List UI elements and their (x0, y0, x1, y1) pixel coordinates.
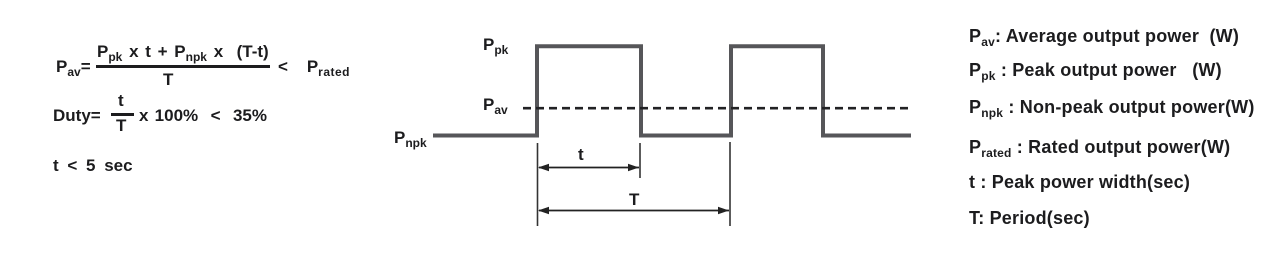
less-than Prated (278, 58, 350, 76)
formula Duty = t/T x 100% < 35% (53, 107, 101, 125)
fraction bar (96, 65, 270, 68)
formula Pav = (Ppk x t + Pnpk x (T-t)) / T < Prated (56, 58, 91, 76)
fraction bar small (111, 113, 134, 116)
legend line T (969, 209, 1090, 228)
extension line right (729, 142, 731, 226)
numerator Ppk x t + Pnpk x (T-t) (97, 43, 269, 61)
legend line Prated (969, 138, 1230, 157)
legend line Ppk (969, 61, 1222, 80)
extension line middle (639, 143, 641, 178)
square wave pulse train (433, 46, 911, 135)
numerator t (118, 92, 124, 110)
x 100% < 35% (139, 107, 267, 125)
denominator T (163, 71, 173, 89)
denominator T (116, 117, 126, 135)
T dimension arrow (539, 210, 729, 212)
svg-text:Pnpk: Pnpk (394, 128, 427, 150)
svg-text:Pav: Pav (483, 95, 508, 117)
dashed average line (523, 107, 908, 110)
svg-text:Ppk: Ppk (483, 35, 509, 57)
t dimension arrow (539, 167, 639, 169)
legend line t (969, 173, 1190, 192)
legend line Pav (969, 27, 1239, 46)
formula t < 5 sec (53, 157, 133, 175)
svg-text:t: t (578, 145, 584, 164)
extension line left (537, 143, 539, 226)
svg-text:T: T (629, 190, 640, 209)
legend line Pnpk (969, 98, 1255, 117)
